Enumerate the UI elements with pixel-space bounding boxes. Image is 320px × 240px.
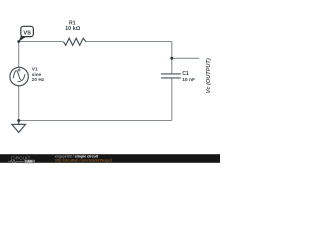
VS flag box [21, 26, 34, 36]
V1 minus sign [18, 81, 21, 83]
node corner dot top-left [17, 40, 20, 43]
watermark bar [0, 154, 220, 163]
svg-text:sine: sine [32, 72, 42, 77]
svg-text:10 kΩ: 10 kΩ [65, 26, 81, 32]
node junction dot at output tap [170, 57, 173, 60]
V1 sine squiggle [13, 71, 25, 81]
svg-text:Vc (OUTPUT): Vc (OUTPUT) [206, 58, 212, 93]
watermark CircuitLab logo [8, 155, 35, 163]
svg-text:http://circuitlab.com/c6c8duh5: http://circuitlab.com/c6c8duh5kagv3 [55, 159, 112, 163]
ground [12, 121, 26, 133]
voltage source V1 circle [10, 67, 28, 85]
VS flag pointer tail [19, 36, 26, 42]
svg-text:20 Hz: 20 Hz [32, 77, 45, 82]
svg-text:LAB: LAB [25, 160, 32, 164]
V1 plus sign [18, 68, 21, 71]
wire V1 bottom to ground junction [18, 86, 20, 121]
svg-text:C1: C1 [182, 71, 189, 77]
wire output stub (junction to Vc label) [172, 57, 200, 59]
svg-text:10 nF: 10 nF [182, 77, 195, 83]
wire right vertical lower segment (C1 bottom plate to bottom corner) [171, 78, 173, 121]
resistor R1 [64, 38, 87, 45]
wire top-right horizontal segment (R1 right lead to right corner) [86, 41, 172, 43]
wire right vertical upper segment (corner to C1 top plate) [171, 42, 173, 74]
svg-text:VS: VS [23, 30, 31, 36]
wire bottom horizontal [19, 120, 172, 122]
capacitor C1 plates [161, 74, 181, 78]
wire top-left horizontal segment (node to R1 left lead) [19, 41, 64, 43]
node junction dot at ground [17, 119, 20, 122]
wire left vertical (node down to V1 top) [18, 42, 20, 68]
